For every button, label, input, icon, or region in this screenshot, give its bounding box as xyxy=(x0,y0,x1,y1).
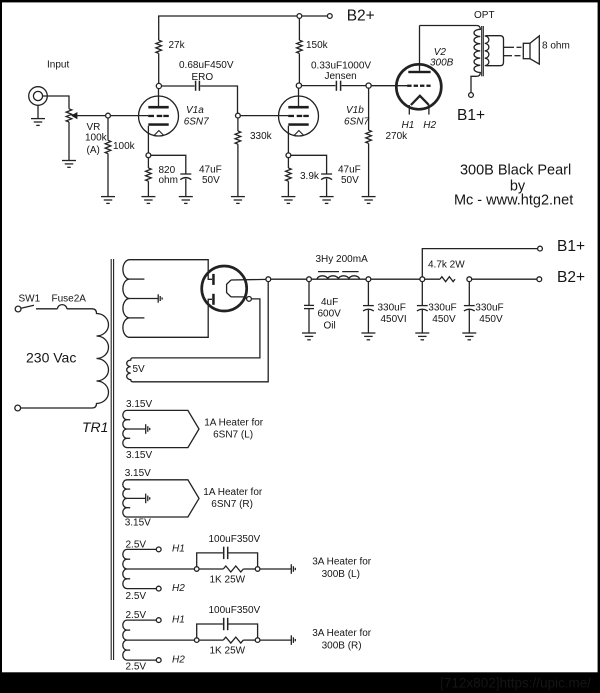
ground center tap winding1 sideways xyxy=(146,424,150,434)
resistor 4.7k 2W xyxy=(440,277,455,282)
wire cathode node to 3.9k xyxy=(287,158,289,168)
node choke output xyxy=(366,277,371,282)
wire 820 to ground xyxy=(147,181,149,196)
svg-text:100uF350V: 100uF350V xyxy=(209,534,261,545)
capacitor 330uF 450VI first xyxy=(367,282,369,306)
V1b grid dashes xyxy=(288,115,309,117)
fuse Fuse2A bump xyxy=(58,305,67,309)
svg-text:1A Heater for: 1A Heater for xyxy=(203,487,263,498)
node V1b plate xyxy=(296,83,301,88)
ground sideways heater L xyxy=(291,564,295,574)
rectifier filament top lead xyxy=(231,278,266,281)
svg-text:3.15V: 3.15V xyxy=(126,450,152,461)
wire rail to 27k xyxy=(158,16,160,40)
potentiometer VR 100k (A) element xyxy=(66,109,72,122)
wire jack to ground xyxy=(37,105,39,118)
V1a plate lead xyxy=(158,89,160,107)
wire node A to 1K L xyxy=(199,568,223,570)
svg-text:Input: Input xyxy=(47,60,69,71)
TR1 3.15V winding L xyxy=(123,410,127,447)
resistor 27k xyxy=(156,40,162,53)
node hum network A R xyxy=(194,638,199,643)
ground 330uF third xyxy=(462,333,476,340)
V2 plate lead xyxy=(419,26,421,71)
svg-text:Jensen: Jensen xyxy=(325,71,357,82)
svg-text:450V: 450V xyxy=(432,314,456,325)
svg-text:450V: 450V xyxy=(479,314,503,325)
OPT primary winding xyxy=(474,26,480,77)
speaker cone xyxy=(530,36,539,64)
terminal B1+ xyxy=(538,246,543,251)
rectifier filament chevron xyxy=(227,280,231,297)
svg-text:V2: V2 xyxy=(434,47,447,58)
ground 100k xyxy=(101,197,115,204)
V1b cathode lead xyxy=(287,126,289,153)
svg-text:TR1: TR1 xyxy=(82,419,108,435)
HV center tap wire xyxy=(130,298,158,300)
center tap wire winding4 xyxy=(127,639,194,641)
wire node down to 270k xyxy=(368,88,370,130)
node 4uF tap xyxy=(307,277,312,282)
svg-text:4uF: 4uF xyxy=(321,297,338,308)
svg-text:330uF: 330uF xyxy=(378,303,406,314)
V2 plate bar xyxy=(408,71,430,73)
svg-text:V1a: V1a xyxy=(186,105,204,116)
TR1 5V winding xyxy=(127,358,133,382)
wire primary bottom to mains neutral xyxy=(21,407,92,409)
wire node to V1b grid xyxy=(240,115,288,117)
capacitor 330uF 450V second xyxy=(421,282,423,306)
svg-text:6SN7: 6SN7 xyxy=(344,116,369,127)
ground 330uF second xyxy=(415,333,429,340)
svg-text:600V: 600V xyxy=(318,309,342,320)
node rail 150k xyxy=(297,14,302,19)
svg-text:50V: 50V xyxy=(202,175,220,186)
svg-text:VR: VR xyxy=(87,122,101,133)
terminal H1 L xyxy=(156,547,161,552)
wire to B2+ terminal xyxy=(472,278,537,280)
terminal B2+ top xyxy=(327,14,332,19)
winding3 cusp ticks xyxy=(127,558,130,560)
terminal rectifier filament bottom xyxy=(247,297,252,302)
ground HV center tap sideways xyxy=(158,294,162,302)
B2+ rail top wire xyxy=(158,15,327,17)
terminal H1 R xyxy=(156,618,161,623)
svg-text:B2+: B2+ xyxy=(347,7,375,24)
svg-text:H2: H2 xyxy=(172,583,185,594)
wire secondary to speaker bottom xyxy=(504,55,513,57)
input RCA jack outer xyxy=(29,87,48,106)
input RCA jack pin tick xyxy=(43,95,48,97)
resistor 330k xyxy=(235,131,241,144)
ground jack xyxy=(31,119,45,126)
ground 3.9k xyxy=(281,197,295,204)
capacitor 4uF 600V Oil xyxy=(308,282,310,306)
node grid V1a xyxy=(106,113,111,118)
wire wiper to node xyxy=(77,115,105,117)
wire plate node to Jensen cap xyxy=(302,85,336,87)
wire V2 plate to OPT xyxy=(420,25,477,27)
svg-text:300B (L): 300B (L) xyxy=(322,569,360,580)
capacitor 100uF350V branch R xyxy=(197,624,223,638)
svg-text:6SN7: 6SN7 xyxy=(184,116,209,127)
svg-text:300B Black Pearl: 300B Black Pearl xyxy=(460,162,571,178)
V2 heater lead H1 xyxy=(408,105,410,115)
svg-text:5V: 5V xyxy=(133,364,146,375)
resistor 820 ohm xyxy=(146,168,152,181)
svg-text:100k: 100k xyxy=(85,133,108,144)
ground 330uF first xyxy=(361,333,375,340)
choke 3Hy 200mA arcs xyxy=(317,276,359,279)
svg-text:330k: 330k xyxy=(250,131,273,142)
svg-text:3.15V: 3.15V xyxy=(125,468,151,479)
resistor 3.9k xyxy=(286,168,292,181)
svg-text:OPT: OPT xyxy=(474,10,495,21)
svg-text:Mc - www.htg2.net: Mc - www.htg2.net xyxy=(454,193,573,209)
node V1a plate xyxy=(156,83,161,88)
node rectifier output xyxy=(266,277,271,282)
TR1 2.5V winding R xyxy=(123,620,127,660)
rectifier plate2 bar xyxy=(212,294,215,305)
wire HV bottom to rectifier plate2 xyxy=(130,299,213,337)
V2 heater lead H2 xyxy=(428,105,430,115)
wire jack to pot xyxy=(47,96,69,109)
wire cathode node to 47uF V1b xyxy=(291,155,327,174)
ground center tap winding2 sideways xyxy=(146,494,150,504)
footer bar xyxy=(0,672,600,693)
svg-text:300B (R): 300B (R) xyxy=(322,640,362,651)
svg-text:8 ohm: 8 ohm xyxy=(542,40,570,51)
svg-text:B1+: B1+ xyxy=(557,238,585,255)
svg-text:50V: 50V xyxy=(341,175,359,186)
tube V2 300B envelope xyxy=(396,64,441,109)
switch SW1 lever xyxy=(21,305,34,308)
ground 47uF V1b xyxy=(320,197,334,204)
HV cusp tick lower xyxy=(130,317,145,319)
svg-text:1K 25W: 1K 25W xyxy=(210,645,246,656)
tube V1a 6SN7 envelope xyxy=(139,96,179,136)
svg-text:450VI: 450VI xyxy=(381,314,407,325)
heater loop chevron 6SN7 L xyxy=(127,410,199,447)
wire 150k to V1b plate node xyxy=(298,53,300,83)
TR1 3.15V winding R xyxy=(123,480,127,517)
OPT core xyxy=(481,26,483,76)
svg-text:330uF: 330uF xyxy=(475,303,503,314)
svg-text:0.68uF450V: 0.68uF450V xyxy=(179,60,234,71)
speaker driver box xyxy=(523,43,530,58)
svg-text:H2: H2 xyxy=(423,120,436,131)
node B2+ takeoff xyxy=(467,277,472,282)
wire filament bottom to 5V top xyxy=(133,299,260,358)
svg-text:3.9k: 3.9k xyxy=(300,171,320,182)
svg-text:Oil: Oil xyxy=(324,321,336,332)
wire HV top to rectifier plate1 xyxy=(130,260,213,280)
ground 330k xyxy=(231,197,245,204)
node V1a cathode xyxy=(146,153,151,158)
svg-text:3.15V: 3.15V xyxy=(126,399,152,410)
node hum network B R xyxy=(255,638,260,643)
node V2 grid xyxy=(366,83,371,88)
svg-text:3A Heater for: 3A Heater for xyxy=(312,557,372,568)
wire cathode node to 47uF xyxy=(151,155,186,174)
wire winding3 to H2 xyxy=(127,588,156,590)
terminal H2 L xyxy=(156,586,161,591)
wire 3.9k to ground xyxy=(287,181,289,196)
svg-text:6SN7 (R): 6SN7 (R) xyxy=(211,499,253,510)
svg-text:3.15V: 3.15V xyxy=(125,518,151,529)
wire switch to fuse xyxy=(36,308,58,310)
V1b plate lead xyxy=(298,88,300,106)
V1a grid dashes xyxy=(148,115,169,117)
TR1 2.5V winding L xyxy=(123,549,127,588)
V1a cathode lead xyxy=(147,126,149,153)
svg-text:2.5V: 2.5V xyxy=(126,661,147,672)
capacitor 47uF 50V V1b xyxy=(321,173,332,175)
OPT secondary winding xyxy=(485,36,489,66)
node V1b grid xyxy=(236,113,241,118)
wire pot bottom to ground xyxy=(68,122,70,161)
svg-text:H1: H1 xyxy=(172,543,185,554)
wire 27k to plate node xyxy=(158,53,160,83)
winding4 cusp ticks xyxy=(127,629,130,631)
svg-text:2.5V: 2.5V xyxy=(126,591,147,602)
wire fuse to primary xyxy=(67,308,92,310)
wire B1+ riser and rail xyxy=(422,249,537,277)
svg-text:300B: 300B xyxy=(430,58,454,69)
wire winding3 to H1 xyxy=(127,548,156,550)
wire node B to chassis L xyxy=(260,568,291,570)
wire 47uF V1b to ground xyxy=(326,179,328,197)
rectifier plate1 bar xyxy=(212,274,215,285)
wire node down to 330k xyxy=(237,118,239,131)
wire secondary to speaker top xyxy=(504,46,515,48)
svg-text:3Hy 200mA: 3Hy 200mA xyxy=(316,254,369,265)
wire Jensen cap to V2 grid node xyxy=(342,85,367,87)
ground pot xyxy=(62,161,76,168)
svg-text:B2+: B2+ xyxy=(557,269,585,286)
frame right border xyxy=(598,0,600,693)
choke core bars xyxy=(318,271,339,273)
svg-text:230 Vac: 230 Vac xyxy=(26,349,76,365)
ground 270k xyxy=(362,197,376,204)
wire node to V2 grid xyxy=(371,85,407,87)
svg-text:H1: H1 xyxy=(402,120,415,131)
svg-text:6SN7 (L): 6SN7 (L) xyxy=(213,430,253,441)
wire plate node to ERO cap xyxy=(162,85,195,87)
svg-text:ohm: ohm xyxy=(159,175,178,186)
potentiometer wiper arrow xyxy=(71,112,77,119)
TR1 primary winding xyxy=(92,309,109,408)
ground 820 xyxy=(141,197,155,204)
heater loop chevron 6SN7 R xyxy=(127,480,199,517)
terminal H2 R xyxy=(156,658,161,663)
resistor 1K 25W R xyxy=(223,637,243,643)
svg-text:150k: 150k xyxy=(306,40,329,51)
wire node to V1a grid xyxy=(110,115,148,117)
ground 47uF V1a xyxy=(179,197,193,204)
winding2 cusp ticks xyxy=(127,488,130,490)
wire 47uF to ground xyxy=(185,179,187,197)
tube V1b 6SN7 envelope xyxy=(279,96,319,136)
rectifier tube envelope xyxy=(202,266,247,311)
V1b heater chevron xyxy=(294,131,303,136)
capacitor 330uF 450V third xyxy=(468,282,470,306)
wire 1K to node B L xyxy=(243,568,255,570)
wire 5V bottom to rectifier output node xyxy=(133,282,268,382)
svg-text:100k: 100k xyxy=(113,141,136,152)
resistor 270k xyxy=(366,130,372,143)
svg-text:3A Heater for: 3A Heater for xyxy=(312,628,372,639)
resistor 1K 25W L xyxy=(223,566,243,572)
wire cathode node to 820 xyxy=(147,158,149,168)
svg-text:0.33uF1000V: 0.33uF1000V xyxy=(311,61,371,72)
V1b cathode bar xyxy=(288,123,308,126)
rectifier filament bottom lead xyxy=(231,297,247,299)
capacitor Jensen 0.33uF bars xyxy=(336,81,340,91)
terminal B1+ OPT xyxy=(469,93,474,98)
frame left border xyxy=(0,0,2,693)
wire OPT primary bottom to B1+ terminal xyxy=(471,76,477,92)
center tap wire winding2 xyxy=(127,497,145,499)
capacitor 47uF 50V V1a xyxy=(180,173,191,175)
terminal mains neutral xyxy=(15,405,21,411)
wire winding4 to H1 xyxy=(127,619,156,621)
center tap wire winding3 xyxy=(127,568,194,570)
wire winding4 to H2 xyxy=(127,659,156,661)
V1a cathode bar xyxy=(148,123,168,126)
TR1 core xyxy=(110,259,112,660)
HV cusp tick upper xyxy=(130,278,145,280)
svg-text:47uF: 47uF xyxy=(199,165,222,176)
capacitor 100uF350V branch L xyxy=(197,553,223,567)
svg-text:4.7k 2W: 4.7k 2W xyxy=(428,260,465,271)
wire 1K to node B R xyxy=(243,639,255,641)
svg-text:1A Heater for: 1A Heater for xyxy=(204,418,264,429)
ground 4uF xyxy=(302,333,316,340)
wire node B to chassis R xyxy=(260,639,291,641)
wire 330k to ground xyxy=(237,144,239,196)
svg-text:H1: H1 xyxy=(172,614,185,625)
svg-text:Fuse2A: Fuse2A xyxy=(52,294,87,305)
frame top border xyxy=(0,0,600,2)
wire ERO cap to V1b grid node xyxy=(200,86,237,113)
svg-text:100uF350V: 100uF350V xyxy=(209,605,261,616)
svg-text:(A): (A) xyxy=(87,145,100,156)
svg-text:V1b: V1b xyxy=(346,105,364,116)
input RCA jack inner xyxy=(33,91,42,100)
B+ rail wire xyxy=(271,278,440,280)
capacitor ERO 0.68uF bars xyxy=(196,81,200,91)
node hum network B L xyxy=(255,567,260,572)
OPT secondary loop xyxy=(486,36,504,66)
svg-text:47uF: 47uF xyxy=(338,165,361,176)
ground sideways heater R xyxy=(291,635,295,645)
svg-text:[712x802]https://upic.me/: [712x802]https://upic.me/ xyxy=(440,676,591,691)
svg-text:27k: 27k xyxy=(169,40,186,51)
terminal mains live xyxy=(15,306,21,312)
V1a heater chevron xyxy=(154,131,163,136)
svg-text:ERO: ERO xyxy=(192,72,214,83)
node B1+ takeoff xyxy=(420,277,425,282)
svg-text:330uF: 330uF xyxy=(428,303,456,314)
resistor 100k grid xyxy=(105,140,111,153)
V2 filament chevron xyxy=(411,96,429,105)
winding1 cusp ticks xyxy=(127,419,130,421)
svg-text:H2: H2 xyxy=(172,655,185,666)
wire node down to 100k xyxy=(107,118,109,140)
node V1b cathode xyxy=(286,153,291,158)
resistor 150k xyxy=(298,18,300,40)
center tap wire winding1 xyxy=(127,428,145,430)
V1b plate bar xyxy=(288,106,308,109)
svg-text:SW1: SW1 xyxy=(19,294,41,305)
wire node A to 1K R xyxy=(199,639,223,641)
wire 270k to ground xyxy=(368,143,370,196)
svg-text:1K 25W: 1K 25W xyxy=(210,574,246,585)
wire 100k to ground xyxy=(107,154,109,197)
V2 grid dashes xyxy=(407,85,430,87)
svg-text:270k: 270k xyxy=(386,131,409,142)
V1a plate bar xyxy=(148,106,168,109)
TR1 HV secondary winding xyxy=(123,260,130,338)
terminal B2+ xyxy=(537,277,542,282)
node hum network A L xyxy=(194,567,199,572)
svg-text:B1+: B1+ xyxy=(457,107,485,124)
